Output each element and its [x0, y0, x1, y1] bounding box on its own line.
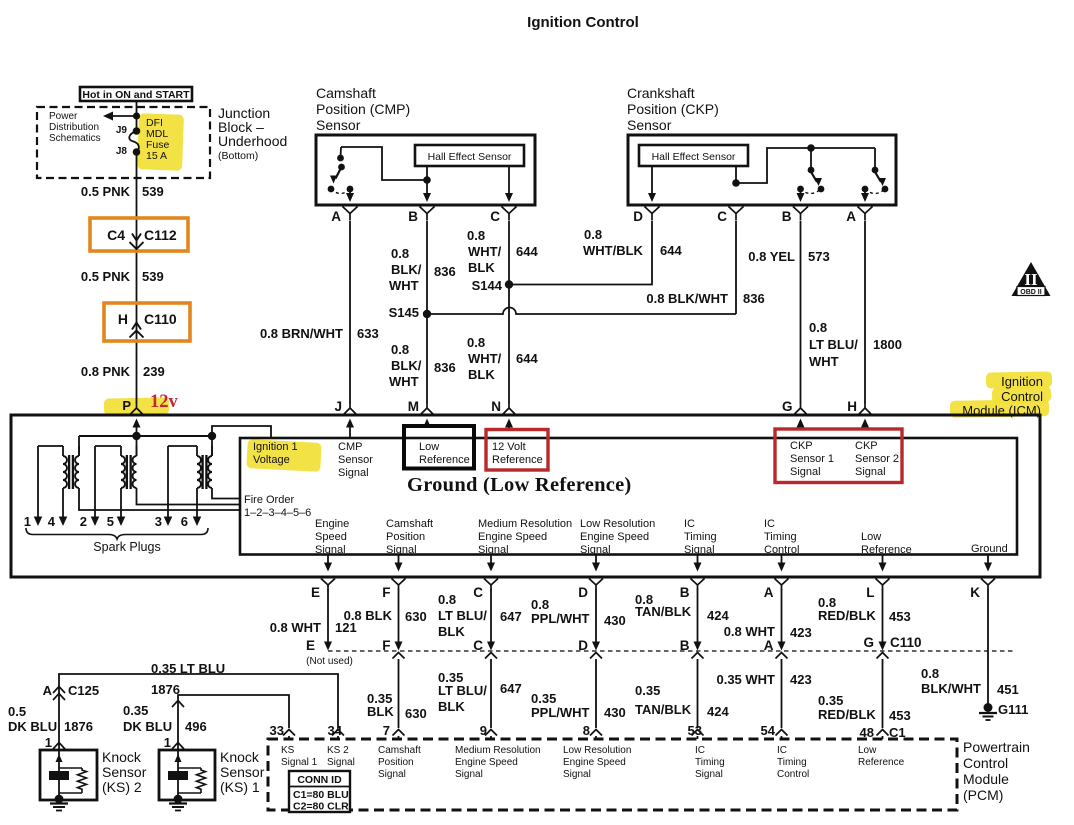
svg-text:633: 633: [357, 326, 379, 341]
svg-text:0.8: 0.8: [921, 666, 939, 681]
svg-text:DK BLU: DK BLU: [8, 719, 57, 734]
svg-text:S145: S145: [389, 305, 419, 320]
svg-text:6: 6: [181, 514, 188, 529]
svg-text:J8: J8: [116, 146, 128, 157]
svg-text:8: 8: [583, 723, 590, 738]
svg-text:Speed: Speed: [315, 531, 347, 543]
svg-text:C112: C112: [144, 227, 177, 243]
svg-text:0.8: 0.8: [531, 597, 549, 612]
svg-text:2: 2: [80, 514, 87, 529]
svg-text:Position: Position: [378, 757, 414, 768]
svg-text:Camshaft: Camshaft: [316, 85, 376, 101]
svg-text:Camshaft: Camshaft: [386, 518, 433, 530]
svg-text:Timing: Timing: [684, 531, 717, 543]
svg-text:RED/BLK: RED/BLK: [818, 707, 876, 722]
svg-text:BLK/: BLK/: [391, 358, 422, 373]
svg-text:K: K: [970, 585, 980, 600]
svg-text:(Not used): (Not used): [306, 656, 353, 667]
svg-text:34: 34: [328, 723, 343, 738]
svg-text:0.8: 0.8: [467, 335, 485, 350]
svg-text:Sensor: Sensor: [102, 764, 147, 780]
svg-text:Signal: Signal: [455, 769, 483, 780]
svg-text:Ground (Low Reference): Ground (Low Reference): [407, 474, 632, 496]
svg-text:Power: Power: [49, 111, 78, 122]
svg-text:0.8: 0.8: [438, 592, 456, 607]
svg-text:WHT/: WHT/: [468, 351, 502, 366]
svg-text:0.8: 0.8: [467, 228, 485, 243]
svg-text:1876: 1876: [151, 682, 180, 697]
svg-text:Engine Speed: Engine Speed: [478, 531, 547, 543]
svg-text:A: A: [43, 683, 53, 698]
svg-text:(KS) 2: (KS) 2: [102, 779, 142, 795]
svg-text:0.8 WHT: 0.8 WHT: [270, 620, 321, 635]
svg-text:IC: IC: [777, 745, 787, 756]
svg-text:1876: 1876: [64, 719, 93, 734]
svg-text:C: C: [490, 209, 500, 224]
svg-text:Signal: Signal: [855, 466, 886, 478]
svg-text:Powertrain: Powertrain: [963, 739, 1030, 755]
svg-text:LT BLU/: LT BLU/: [438, 608, 487, 623]
svg-text:33: 33: [270, 723, 284, 738]
svg-text:Position: Position: [386, 531, 425, 543]
svg-text:DK BLU: DK BLU: [123, 719, 172, 734]
svg-text:539: 539: [142, 184, 164, 199]
svg-text:Low: Low: [861, 531, 881, 543]
svg-text:Engine Speed: Engine Speed: [580, 531, 649, 543]
svg-text:Control: Control: [1001, 389, 1043, 404]
svg-text:Low: Low: [419, 441, 439, 453]
svg-text:5: 5: [107, 514, 114, 529]
svg-text:1–2–3–4–5–6: 1–2–3–4–5–6: [244, 507, 311, 519]
svg-text:Sensor: Sensor: [220, 764, 265, 780]
svg-text:P: P: [122, 398, 131, 413]
svg-text:647: 647: [500, 681, 522, 696]
svg-text:0.5 PNK: 0.5 PNK: [81, 269, 131, 284]
svg-text:WHT/BLK: WHT/BLK: [583, 243, 644, 258]
svg-text:CONN ID: CONN ID: [297, 774, 342, 786]
svg-text:0.5: 0.5: [8, 704, 26, 719]
svg-text:KS 2: KS 2: [327, 745, 349, 756]
svg-text:0.8 BRN/WHT: 0.8 BRN/WHT: [260, 326, 343, 341]
svg-text:C110: C110: [890, 635, 922, 650]
svg-text:0.8 BLK: 0.8 BLK: [344, 608, 393, 623]
svg-text:Camshaft: Camshaft: [378, 745, 421, 756]
svg-text:Signal: Signal: [478, 544, 509, 556]
svg-text:Module: Module: [963, 771, 1009, 787]
svg-text:423: 423: [790, 672, 812, 687]
svg-text:Low Resolution: Low Resolution: [580, 518, 655, 530]
svg-text:A: A: [331, 209, 341, 224]
svg-text:0.5 PNK: 0.5 PNK: [81, 184, 131, 199]
svg-text:630: 630: [405, 706, 427, 721]
svg-text:CKP: CKP: [855, 440, 878, 452]
svg-text:573: 573: [808, 249, 830, 264]
svg-text:C1=80 BLU: C1=80 BLU: [293, 789, 349, 801]
svg-text:836: 836: [434, 264, 456, 279]
svg-text:1800: 1800: [873, 337, 902, 352]
svg-text:G111: G111: [998, 702, 1028, 717]
svg-text:A: A: [846, 209, 856, 224]
svg-text:Reference: Reference: [861, 544, 912, 556]
svg-text:Reference: Reference: [492, 454, 543, 466]
svg-text:F: F: [382, 585, 390, 600]
svg-text:496: 496: [185, 719, 207, 734]
svg-text:BLK: BLK: [468, 260, 495, 275]
svg-text:0.35: 0.35: [818, 693, 843, 708]
svg-text:Medium Resolution: Medium Resolution: [478, 518, 572, 530]
svg-text:644: 644: [516, 351, 538, 366]
svg-text:53: 53: [688, 723, 702, 738]
svg-text:Signal: Signal: [386, 544, 417, 556]
svg-text:0.8 BLK/WHT: 0.8 BLK/WHT: [646, 291, 728, 306]
svg-text:Hall Effect Sensor: Hall Effect Sensor: [428, 151, 512, 163]
svg-text:B: B: [680, 585, 690, 600]
svg-text:BLK/: BLK/: [391, 262, 422, 277]
svg-text:Signal: Signal: [563, 769, 591, 780]
svg-text:Sensor: Sensor: [316, 117, 361, 133]
svg-text:E: E: [306, 638, 315, 653]
svg-text:WHT/: WHT/: [468, 244, 502, 259]
svg-text:453: 453: [889, 708, 911, 723]
svg-text:Voltage: Voltage: [253, 454, 290, 466]
svg-text:(KS) 1: (KS) 1: [220, 779, 260, 795]
svg-text:7: 7: [383, 723, 390, 738]
svg-text:Medium Resolution: Medium Resolution: [455, 745, 541, 756]
svg-text:C: C: [717, 209, 727, 224]
svg-text:(Bottom): (Bottom): [218, 150, 258, 162]
svg-text:Control: Control: [764, 544, 799, 556]
svg-text:4: 4: [48, 514, 56, 529]
svg-text:Signal: Signal: [695, 769, 723, 780]
svg-text:BLK: BLK: [438, 699, 465, 714]
svg-text:Signal: Signal: [378, 769, 406, 780]
svg-text:647: 647: [500, 609, 522, 624]
svg-text:Engine Speed: Engine Speed: [455, 757, 518, 768]
svg-text:Timing: Timing: [695, 757, 725, 768]
svg-text:H: H: [118, 311, 128, 327]
svg-text:Reference: Reference: [419, 454, 470, 466]
svg-text:D: D: [578, 585, 588, 600]
svg-text:M: M: [408, 399, 419, 414]
svg-text:BLK: BLK: [468, 367, 495, 382]
svg-text:Timing: Timing: [777, 757, 807, 768]
svg-text:Knock: Knock: [220, 749, 260, 765]
svg-text:0.8: 0.8: [391, 246, 409, 261]
svg-text:RED/BLK: RED/BLK: [818, 608, 876, 623]
svg-text:B: B: [408, 209, 418, 224]
svg-text:CKP: CKP: [790, 440, 813, 452]
svg-text:644: 644: [660, 243, 682, 258]
svg-text:IC: IC: [684, 518, 695, 530]
svg-text:Control: Control: [777, 769, 809, 780]
svg-text:CMP: CMP: [338, 441, 362, 453]
svg-text:BLK: BLK: [367, 704, 394, 719]
svg-text:Ignition 1: Ignition 1: [253, 441, 298, 453]
svg-text:239: 239: [143, 364, 165, 379]
svg-text:Signal 1: Signal 1: [281, 757, 318, 768]
svg-text:Sensor 1: Sensor 1: [790, 453, 834, 465]
svg-text:S144: S144: [472, 278, 503, 293]
svg-text:0.8 WHT: 0.8 WHT: [724, 624, 775, 639]
svg-text:KS: KS: [281, 745, 295, 756]
svg-text:3: 3: [155, 514, 162, 529]
svg-text:Ground: Ground: [971, 543, 1008, 555]
svg-text:424: 424: [707, 608, 729, 623]
svg-text:H: H: [847, 399, 857, 414]
svg-text:Signal: Signal: [580, 544, 611, 556]
svg-text:9: 9: [480, 723, 487, 738]
svg-text:IC: IC: [764, 518, 775, 530]
svg-text:WHT: WHT: [809, 354, 839, 369]
svg-text:836: 836: [434, 360, 456, 375]
svg-text:Sensor: Sensor: [338, 454, 373, 466]
svg-text:12 Volt: 12 Volt: [492, 441, 526, 453]
svg-text:Knock: Knock: [102, 749, 142, 765]
svg-text:G: G: [863, 635, 874, 650]
svg-text:430: 430: [604, 705, 626, 720]
svg-text:424: 424: [707, 704, 729, 719]
svg-text:54: 54: [761, 723, 776, 738]
svg-text:0.35: 0.35: [123, 703, 148, 718]
svg-text:Low Resolution: Low Resolution: [563, 745, 631, 756]
svg-text:J: J: [334, 399, 342, 414]
svg-text:Crankshaft: Crankshaft: [627, 85, 695, 101]
svg-text:C4: C4: [107, 227, 125, 243]
svg-text:TAN/BLK: TAN/BLK: [635, 702, 692, 717]
svg-text:IC: IC: [695, 745, 705, 756]
svg-text:LT BLU/: LT BLU/: [438, 683, 487, 698]
svg-text:836: 836: [743, 291, 765, 306]
svg-text:TAN/BLK: TAN/BLK: [635, 604, 692, 619]
svg-text:D: D: [633, 209, 643, 224]
svg-text:Position (CKP): Position (CKP): [627, 101, 719, 117]
svg-text:Ignition Control: Ignition Control: [527, 14, 639, 31]
svg-text:BLK: BLK: [438, 624, 465, 639]
svg-text:L: L: [866, 585, 874, 600]
svg-text:Signal: Signal: [315, 544, 346, 556]
svg-text:WHT: WHT: [389, 278, 419, 293]
svg-text:Distribution: Distribution: [49, 122, 99, 133]
svg-text:Sensor: Sensor: [627, 117, 672, 133]
svg-text:0.8 PNK: 0.8 PNK: [81, 364, 131, 379]
svg-text:1: 1: [164, 735, 171, 750]
svg-text:Hot in ON and START: Hot in ON and START: [82, 89, 190, 101]
svg-text:BLK/WHT: BLK/WHT: [921, 681, 981, 696]
svg-text:0.35: 0.35: [531, 691, 556, 706]
svg-text:0.8: 0.8: [391, 342, 409, 357]
svg-text:PPL/WHT: PPL/WHT: [531, 705, 590, 720]
svg-text:Ignition: Ignition: [1001, 374, 1043, 389]
svg-text:Underhood: Underhood: [218, 133, 287, 149]
svg-text:0.8 YEL: 0.8 YEL: [748, 249, 795, 264]
svg-text:LT BLU/: LT BLU/: [809, 337, 858, 352]
svg-text:Signal: Signal: [327, 757, 355, 768]
svg-text:C2=80 CLR: C2=80 CLR: [293, 801, 349, 813]
svg-text:Engine Speed: Engine Speed: [563, 757, 626, 768]
svg-text:0.8: 0.8: [809, 320, 827, 335]
svg-text:Signal: Signal: [684, 544, 715, 556]
svg-text:0.8: 0.8: [584, 227, 602, 242]
svg-text:0.35 LT BLU: 0.35 LT BLU: [151, 661, 225, 676]
svg-text:OBD II: OBD II: [1020, 289, 1041, 296]
svg-text:Hall Effect Sensor: Hall Effect Sensor: [652, 151, 736, 163]
svg-text:Fire Order: Fire Order: [244, 494, 294, 506]
svg-text:Timing: Timing: [764, 531, 797, 543]
svg-text:A: A: [764, 585, 774, 600]
svg-text:Signal: Signal: [790, 466, 821, 478]
svg-text:B: B: [782, 209, 792, 224]
svg-text:644: 644: [516, 244, 538, 259]
svg-text:C: C: [473, 585, 483, 600]
svg-text:Sensor 2: Sensor 2: [855, 453, 899, 465]
svg-text:430: 430: [604, 613, 626, 628]
svg-text:Low: Low: [858, 745, 877, 756]
svg-text:Engine: Engine: [315, 518, 349, 530]
svg-text:G: G: [782, 399, 793, 414]
svg-text:1: 1: [24, 514, 31, 529]
svg-text:539: 539: [142, 269, 164, 284]
svg-text:12v: 12v: [150, 392, 179, 412]
svg-text:Reference: Reference: [858, 757, 905, 768]
svg-text:N: N: [491, 399, 501, 414]
svg-text:Spark Plugs: Spark Plugs: [93, 540, 160, 554]
svg-text:Control: Control: [963, 755, 1008, 771]
svg-text:Position (CMP): Position (CMP): [316, 101, 410, 117]
svg-text:0.35 WHT: 0.35 WHT: [716, 672, 775, 687]
svg-text:C125: C125: [68, 683, 99, 698]
svg-text:453: 453: [889, 609, 911, 624]
svg-text:Signal: Signal: [338, 467, 369, 479]
svg-text:(PCM): (PCM): [963, 787, 1003, 803]
svg-text:423: 423: [790, 625, 812, 640]
svg-text:0.35: 0.35: [635, 683, 660, 698]
svg-text:Schematics: Schematics: [49, 133, 101, 144]
svg-text:15 A: 15 A: [146, 150, 167, 162]
svg-text:C110: C110: [144, 311, 177, 327]
svg-text:451: 451: [997, 682, 1019, 697]
svg-text:630: 630: [405, 609, 427, 624]
svg-text:J9: J9: [116, 125, 128, 136]
svg-text:1: 1: [45, 735, 52, 750]
svg-text:PPL/WHT: PPL/WHT: [531, 611, 590, 626]
svg-text:WHT: WHT: [389, 374, 419, 389]
svg-text:E: E: [311, 585, 320, 600]
